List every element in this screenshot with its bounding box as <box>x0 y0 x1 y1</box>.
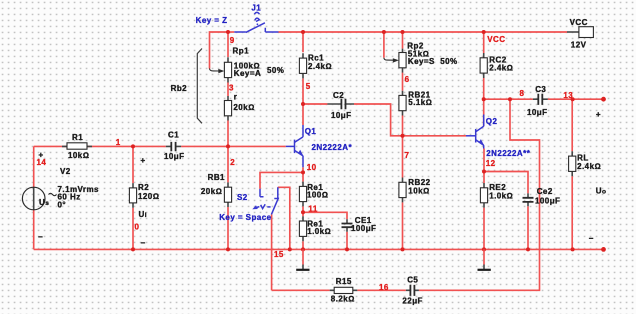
svg-text:100μF: 100μF <box>535 197 560 206</box>
resistor Rc1 <box>299 53 332 78</box>
svg-text:−: − <box>141 238 146 247</box>
svg-text:C5: C5 <box>407 275 418 284</box>
wire C2 left <box>303 103 327 105</box>
resistor Re1 100 <box>299 182 328 207</box>
wire feedback bottom line <box>272 99 540 290</box>
capacitor Ce2 <box>523 187 561 206</box>
wire Q2 collector <box>483 99 485 126</box>
svg-text:7: 7 <box>405 151 410 160</box>
svg-text:Rb2: Rb2 <box>171 84 188 93</box>
junction node 2 <box>226 144 230 148</box>
wire top rail VCC <box>279 31 568 33</box>
svg-text:22μF: 22μF <box>402 297 422 306</box>
switch S2 <box>219 187 278 222</box>
wire RB22 column <box>402 136 404 250</box>
transistor Q1 <box>286 125 353 167</box>
svg-text:11: 11 <box>308 205 317 214</box>
wire RB1 column <box>227 146 229 249</box>
junction rail R2 <box>131 247 135 251</box>
wire Q1 emitter column node 10 11 <box>302 167 304 249</box>
wire node 3 between Rp1 and r <box>227 83 229 97</box>
svg-text:3: 3 <box>229 84 234 93</box>
junction node 8 <box>482 97 486 101</box>
resistor RB21 <box>399 91 432 116</box>
wire V2 left loop <box>33 146 35 249</box>
svg-text:50%: 50% <box>267 66 284 75</box>
wire C2 right to node 7 <box>354 104 466 136</box>
node 14 <box>37 151 47 167</box>
junction rail Re1 <box>301 247 305 251</box>
label Ui <box>135 156 148 248</box>
capacitor C2 <box>327 91 354 120</box>
switch J1 <box>196 4 279 33</box>
brace Rb2 <box>171 49 202 124</box>
wire Rc1 column node 5 <box>302 32 304 125</box>
svg-text:0: 0 <box>135 223 140 232</box>
junction node 13 <box>571 97 575 101</box>
resistor R15 <box>330 277 358 304</box>
svg-text:120Ω: 120Ω <box>138 192 159 201</box>
svg-text:14: 14 <box>37 158 47 167</box>
junction rail RB22 <box>401 247 405 251</box>
svg-text:50%: 50% <box>440 57 457 66</box>
source V2 <box>22 167 99 242</box>
svg-text:Key=S: Key=S <box>408 57 435 66</box>
svg-text:Rp1: Rp1 <box>233 47 250 56</box>
svg-text:−: − <box>589 234 594 243</box>
resistor R2 <box>129 183 159 208</box>
svg-text:RB1: RB1 <box>208 173 225 182</box>
wire RL column <box>571 99 573 249</box>
svg-text:−: − <box>38 233 43 242</box>
svg-text:2N2222A**: 2N2222A** <box>486 149 531 158</box>
junction feedback tap <box>508 97 512 101</box>
svg-text:12: 12 <box>486 159 496 168</box>
svg-text:2.4kΩ: 2.4kΩ <box>577 162 601 171</box>
svg-text:S2: S2 <box>237 193 248 202</box>
svg-text:0°: 0° <box>58 200 67 209</box>
junction node 10 <box>301 170 305 174</box>
lead VCC box <box>567 31 579 33</box>
svg-text:Ui: Ui <box>139 210 148 219</box>
wire Rp2 wiper feed <box>383 32 385 58</box>
svg-text:12V: 12V <box>571 41 587 50</box>
potentiometer Rp2 <box>384 41 458 72</box>
svg-text:10kΩ: 10kΩ <box>68 151 89 160</box>
potentiometer Rp1 <box>210 47 285 83</box>
wire RB21 bottom node 7 <box>402 116 404 136</box>
svg-text:C3: C3 <box>535 85 546 94</box>
junction rail CE1 <box>345 247 349 251</box>
svg-text:Key=A: Key=A <box>234 69 261 78</box>
svg-text:Uo: Uo <box>596 186 607 195</box>
svg-text:20kΩ: 20kΩ <box>233 103 254 112</box>
svg-text:100μF: 100μF <box>351 224 376 233</box>
svg-text:Key = Z: Key = Z <box>196 16 228 25</box>
resistor RL <box>569 151 601 176</box>
junction rail RL <box>571 247 575 251</box>
resistor R1 <box>62 133 92 160</box>
svg-text:5: 5 <box>306 82 311 91</box>
svg-text:V2: V2 <box>60 167 71 176</box>
junction rail RB1 <box>226 247 230 251</box>
wire wiper feed Rp1 <box>210 32 229 69</box>
wire S2 lever to feedback line <box>271 214 273 290</box>
transistor Q2 <box>466 115 531 158</box>
junction node 9 top <box>226 30 230 34</box>
endpoint top right <box>601 97 606 102</box>
svg-text:2: 2 <box>230 158 235 167</box>
svg-text:+: + <box>141 156 146 165</box>
junction Rp2 wiper top <box>382 30 386 34</box>
svg-text:+: + <box>596 110 601 119</box>
svg-text:16: 16 <box>379 283 389 292</box>
svg-text:100Ω: 100Ω <box>307 190 328 199</box>
wire RC2 column <box>483 32 485 99</box>
wire node 6 <box>402 73 404 91</box>
svg-text:2.4kΩ: 2.4kΩ <box>308 62 332 71</box>
svg-text:2.4kΩ: 2.4kΩ <box>489 63 513 72</box>
svg-text:13: 13 <box>563 91 573 100</box>
svg-text:C1: C1 <box>168 130 179 139</box>
svg-text:10μF: 10μF <box>331 111 351 120</box>
resistor RC2 <box>480 53 513 78</box>
svg-text:Ce2: Ce2 <box>537 187 553 196</box>
wire node 8 rail <box>484 98 604 100</box>
wire S2 right terminal to rail <box>278 187 290 249</box>
ground below Re1 <box>296 249 309 269</box>
svg-text:J1: J1 <box>251 4 261 13</box>
svg-text:Key = Space: Key = Space <box>219 213 271 222</box>
wire r bottom to node 2 <box>227 121 229 147</box>
svg-text:10: 10 <box>307 163 317 172</box>
resistor RB22 <box>399 178 431 203</box>
svg-text:Q1: Q1 <box>305 127 317 136</box>
wire R2 column <box>132 146 134 249</box>
svg-text:20kΩ: 20kΩ <box>201 187 222 196</box>
junction node 1 R2 <box>131 144 135 148</box>
junction RC2 top <box>482 30 486 34</box>
capacitor C5 <box>402 275 422 305</box>
junction node 7 <box>401 134 405 138</box>
junction node 11 <box>301 210 305 214</box>
svg-text:1.0kΩ: 1.0kΩ <box>307 227 331 236</box>
svg-text:2N2222A*: 2N2222A* <box>312 143 353 152</box>
svg-text:R2: R2 <box>138 183 149 192</box>
wire node 10 to S2 <box>260 172 303 188</box>
VCC box 12V <box>570 18 594 49</box>
resistor RB1 <box>201 173 232 207</box>
wire node 11 to CE1 <box>303 212 347 249</box>
svg-text:6: 6 <box>405 75 410 84</box>
junction node 5 <box>301 102 305 106</box>
junction rail Ce2 <box>526 247 530 251</box>
svg-text:10kΩ: 10kΩ <box>408 186 429 195</box>
resistor r 20k <box>224 92 254 120</box>
svg-text:C2: C2 <box>333 91 344 100</box>
wire node 12 to Ce2 <box>484 172 528 250</box>
ground below RE2 <box>478 249 491 269</box>
capacitor CE1 <box>342 216 377 233</box>
svg-text:R1: R1 <box>72 133 83 142</box>
resistor RE2 <box>480 183 513 208</box>
wire Rp2 top <box>402 32 404 49</box>
wire J1 left stub <box>228 31 234 33</box>
svg-text:8.2kΩ: 8.2kΩ <box>331 295 355 304</box>
svg-text:Us: Us <box>39 198 49 207</box>
svg-text:10μF: 10μF <box>527 108 547 117</box>
svg-text:1.0kΩ: 1.0kΩ <box>489 191 513 200</box>
capacitor C1 <box>164 130 184 161</box>
svg-text:R15: R15 <box>336 277 352 286</box>
svg-text:r: r <box>234 92 238 101</box>
svg-text:VCC: VCC <box>487 35 505 44</box>
svg-text:5.1kΩ: 5.1kΩ <box>408 98 432 107</box>
junction rail RE2 <box>482 247 486 251</box>
svg-text:8: 8 <box>520 89 525 98</box>
svg-text:1: 1 <box>116 138 121 147</box>
capacitor C3 <box>527 85 548 117</box>
junction node 12 <box>482 170 486 174</box>
resistor Re1 1.0k <box>299 216 331 241</box>
svg-text:Q2: Q2 <box>486 117 498 126</box>
svg-text:15: 15 <box>274 250 284 259</box>
svg-text:VCC: VCC <box>570 18 588 27</box>
endpoint bottom right <box>601 247 606 252</box>
junction rail S2 <box>288 247 292 251</box>
wire input main y=146.4 <box>34 145 286 147</box>
wire Q2 emitter node 12 <box>483 149 485 250</box>
wire node 9 Rp1 top <box>227 32 229 57</box>
junction Rc1 top <box>301 30 305 34</box>
junction Rp2 top <box>401 30 405 34</box>
svg-text:10μF: 10μF <box>164 152 184 161</box>
svg-text:9: 9 <box>230 36 235 45</box>
wire bottom rail <box>34 248 604 250</box>
